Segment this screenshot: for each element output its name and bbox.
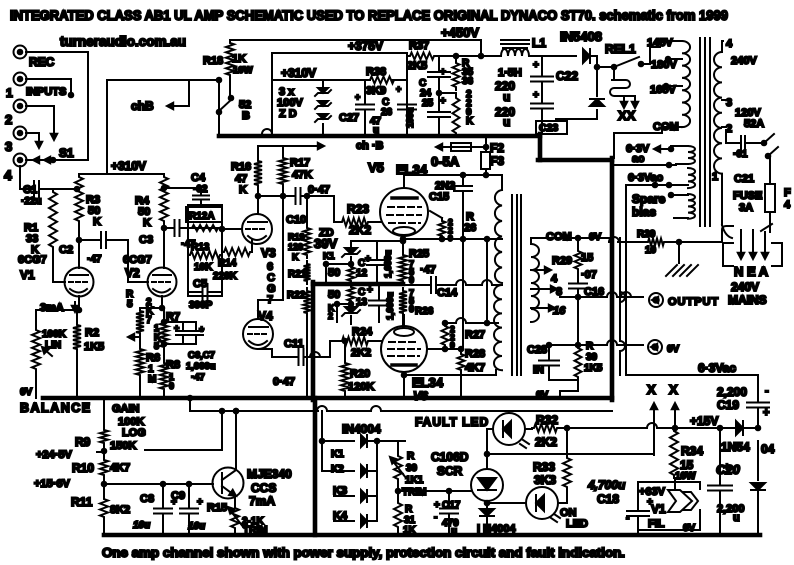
- transformer bias winding: [669, 193, 695, 219]
- capacitor C9: [171, 484, 205, 535]
- wire SCR anode: [485, 429, 490, 469]
- svg-text:+450V: +450V: [441, 25, 479, 40]
- svg-text:CCS: CCS: [251, 481, 276, 495]
- potentiometer GAIN: [100, 398, 146, 446]
- svg-text:K: K: [93, 216, 101, 228]
- svg-text:·07: ·07: [581, 269, 597, 281]
- svg-text:REC: REC: [29, 55, 55, 69]
- label 3mA: [40, 302, 78, 314]
- svg-text:N E A: N E A: [734, 264, 769, 279]
- svg-text:1·5H: 1·5H: [498, 67, 522, 79]
- svg-text:M: M: [148, 374, 156, 385]
- wire OPT tap 8: [531, 286, 562, 298]
- svg-text:K: K: [292, 252, 299, 262]
- label +15.6V: [34, 478, 106, 490]
- svg-text:K2: K2: [331, 464, 344, 475]
- svg-text:GAIN: GAIN: [112, 403, 140, 415]
- svg-text:R12A: R12A: [189, 211, 215, 222]
- svg-text:0: 0: [409, 275, 414, 285]
- svg-text:180V: 180V: [651, 59, 677, 71]
- svg-text:2K5: 2K5: [407, 60, 427, 72]
- label INPUTS: [26, 86, 66, 98]
- wire 0V R39 row: [609, 226, 733, 242]
- label COM: [653, 121, 679, 133]
- node K2: [328, 302, 339, 321]
- diode snubber: [556, 65, 604, 119]
- resistor R30 trim: [390, 441, 426, 498]
- jack 0V: [648, 340, 662, 354]
- wire +310V rail input stage: [79, 159, 164, 174]
- svg-text:B: B: [242, 110, 250, 122]
- svg-text:MJE340: MJE340: [247, 467, 292, 481]
- svg-text:R23: R23: [347, 202, 369, 216]
- junction 0V bus: [188, 396, 193, 401]
- svg-text:2K2: 2K2: [535, 435, 557, 449]
- svg-text:10K: 10K: [194, 262, 213, 273]
- tap 1: [712, 171, 722, 183]
- website text: [60, 34, 186, 49]
- svg-text:K4: K4: [333, 510, 348, 522]
- potentiometer 100K LIN: [32, 327, 67, 372]
- transformer 6.3V winding 2: [626, 168, 695, 188]
- wire 6.3Vac bottom row: [626, 361, 758, 375]
- capacitor C12: [356, 241, 393, 284]
- wire R16 to V3 plate: [256, 188, 283, 214]
- svg-text:1K: 1K: [232, 53, 246, 65]
- svg-text:X: X: [647, 382, 656, 397]
- svg-text:IN4004: IN4004: [342, 422, 381, 436]
- label R 26: [464, 211, 476, 234]
- title text: [10, 8, 728, 23]
- wire thick right edge output box: [610, 158, 615, 400]
- svg-text:1K5: 1K5: [84, 341, 104, 353]
- wire sub0V line: [190, 398, 612, 413]
- svg-text:04: 04: [761, 442, 775, 456]
- wire thick cathode rail y284: [313, 282, 403, 287]
- label spare bias: [632, 192, 666, 219]
- resistor R11: [71, 478, 130, 535]
- switch 52A arm2: [761, 224, 772, 232]
- svg-text:-: -: [434, 512, 437, 523]
- svg-text:·47: ·47: [420, 264, 436, 276]
- resistor R7: [154, 311, 180, 351]
- svg-text:MAINS: MAINS: [728, 293, 767, 307]
- svg-text:C14: C14: [437, 287, 458, 299]
- resistor R8: [160, 359, 180, 398]
- resistor R1: [24, 189, 57, 256]
- svg-text:K: K: [143, 217, 151, 229]
- svg-text:R34: R34: [681, 444, 703, 458]
- resistor R16: [231, 146, 262, 196]
- svg-text:3K3: 3K3: [534, 473, 556, 487]
- label 0V bottom right: [683, 523, 696, 534]
- svg-text:2K2: 2K2: [349, 223, 371, 237]
- arrow X1: [651, 403, 657, 455]
- svg-text:5: 5: [127, 299, 133, 310]
- zener diode ZD 39V: [314, 227, 360, 264]
- resistor 50 lower: [328, 284, 355, 304]
- node K1: [323, 251, 335, 266]
- svg-text:4: 4: [726, 38, 733, 50]
- svg-text:R38: R38: [366, 66, 386, 78]
- svg-text:C3: C3: [139, 234, 153, 246]
- svg-text:TRIM: TRIM: [243, 525, 267, 536]
- resistor R37: [407, 40, 436, 72]
- wire chB down to +310: [106, 80, 108, 174]
- svg-text:3: 3: [726, 97, 732, 109]
- wire C28 R39 node: [547, 343, 581, 348]
- resistor R3: [75, 174, 101, 228]
- capacitor C4: [162, 172, 209, 207]
- svg-text:0: 0: [409, 304, 414, 314]
- svg-text:EL34: EL34: [412, 375, 444, 390]
- svg-text:C17: C17: [442, 500, 461, 511]
- label R27 wire: [428, 329, 485, 351]
- label 1: [6, 86, 13, 100]
- capacitor C16: [569, 269, 604, 345]
- wire C19 to +15 rail: [757, 415, 759, 428]
- label ON LED: [560, 507, 588, 530]
- diode K1: [322, 435, 405, 460]
- tap 2: [722, 118, 764, 135]
- svg-text:COM: COM: [653, 121, 679, 133]
- svg-text:V6: V6: [413, 389, 428, 403]
- transformer primary: [714, 41, 723, 174]
- wire jack4 down: [19, 166, 21, 189]
- resistor R25: [399, 237, 429, 285]
- svg-text:SCR: SCR: [437, 464, 463, 478]
- svg-text:S1: S1: [59, 146, 74, 160]
- resistor R18: [203, 40, 253, 78]
- svg-text:C10: C10: [286, 214, 306, 226]
- svg-text:1,000u: 1,000u: [186, 361, 216, 372]
- svg-text:V5: V5: [368, 160, 384, 175]
- svg-text:turneraudio.com.au: turneraudio.com.au: [60, 34, 186, 49]
- svg-text:IN: IN: [533, 364, 544, 376]
- svg-text:6·3Vac: 6·3Vac: [698, 361, 736, 375]
- svg-text:LED: LED: [566, 518, 588, 530]
- capacitor C20: [708, 428, 745, 535]
- svg-text:TRIM: TRIM: [402, 487, 426, 498]
- jack input 2: [14, 100, 27, 113]
- label 6CG7 V1: [18, 254, 47, 282]
- capacitor C6: [162, 320, 196, 347]
- svg-text:4: 4: [551, 273, 558, 285]
- svg-text:BALANCE: BALANCE: [20, 401, 92, 415]
- svg-text:chB: chB: [131, 99, 154, 113]
- arrow X2: [672, 403, 678, 428]
- tube V5: [380, 188, 428, 236]
- svg-text:2,200: 2,200: [717, 503, 745, 515]
- wire 450 to L1: [481, 55, 501, 57]
- wire C10 to R23: [334, 196, 340, 222]
- capacitor C13: [356, 284, 395, 322]
- wire C2 to V2 grid: [128, 240, 148, 282]
- svg-text:0V: 0V: [683, 523, 696, 534]
- svg-text:100K: 100K: [42, 329, 67, 340]
- svg-text:+310V: +310V: [111, 159, 146, 173]
- svg-text:F3: F3: [490, 154, 504, 168]
- svg-text:R26: R26: [415, 306, 434, 317]
- svg-text:·47: ·47: [191, 372, 205, 383]
- label 0V jack: [667, 344, 680, 355]
- jack OUTPUT: [649, 293, 663, 307]
- svg-text:+: +: [440, 96, 446, 107]
- wire zener top rail: [351, 239, 405, 244]
- svg-text:0V: 0V: [667, 344, 680, 355]
- wire jack1 stub: [26, 79, 73, 97]
- transformer OPT primary upper: [495, 190, 502, 283]
- svg-text:0·47: 0·47: [273, 376, 295, 388]
- box +375V: [262, 39, 407, 134]
- svg-text:120K: 120K: [348, 381, 374, 393]
- wire base line: [104, 482, 213, 487]
- svg-text:C21: C21: [734, 173, 754, 185]
- wire REC jack to S1 bus: [26, 52, 88, 160]
- svg-text:240V: 240V: [731, 280, 759, 294]
- resistor R36: [453, 89, 475, 136]
- svg-text:K1: K1: [331, 449, 344, 460]
- bracket mains right: [772, 243, 782, 266]
- resistor R31: [394, 491, 417, 536]
- svg-text:240V: 240V: [731, 55, 757, 67]
- label V3 6CG7 V4: [258, 246, 276, 323]
- tube V4: [243, 319, 273, 349]
- svg-text:Spare: Spare: [632, 192, 666, 206]
- svg-text:145V: 145V: [647, 37, 673, 49]
- svg-text:+15V: +15V: [690, 414, 718, 428]
- svg-text:1K5: 1K5: [584, 363, 603, 374]
- svg-text:4,700u: 4,700u: [587, 478, 626, 492]
- resistor R21: [288, 261, 311, 284]
- capacitor C22: [495, 60, 578, 104]
- svg-text:FAULT LED: FAULT LED: [415, 415, 489, 429]
- wire OPT tap 4: [531, 267, 558, 285]
- wire mains E arrow: [750, 230, 756, 259]
- svg-text:R20: R20: [350, 368, 370, 380]
- svg-text:390P: 390P: [189, 300, 213, 311]
- svg-text:0V: 0V: [20, 387, 33, 398]
- svg-text:R2: R2: [85, 327, 99, 339]
- svg-text:R: R: [407, 451, 415, 462]
- wire +450V rail: [230, 25, 481, 40]
- svg-text:10: 10: [645, 245, 657, 256]
- label 0V left: [20, 387, 33, 398]
- svg-text:+: +: [647, 497, 653, 508]
- resistor R32: [532, 413, 559, 449]
- relay coil REL1: [610, 67, 634, 96]
- capacitor C27: [339, 80, 382, 136]
- led ON: [494, 487, 567, 522]
- wire K2 row: [337, 304, 351, 322]
- wire C24 C25 mid: [437, 91, 456, 96]
- wire R7 R8: [163, 350, 165, 360]
- wire thick bottom 0V bus y535: [104, 533, 760, 538]
- wire R30 to gate node: [396, 482, 472, 493]
- svg-text:R8: R8: [166, 359, 180, 371]
- svg-text:15: 15: [680, 458, 694, 472]
- resistor R13: [188, 242, 222, 273]
- wire heater line: [614, 163, 676, 168]
- svg-text:-: -: [626, 513, 629, 524]
- wire ch.B arrow: [258, 140, 384, 152]
- resistor R14: [213, 240, 252, 282]
- wire screen tap column: [485, 237, 490, 323]
- resistor R23: [340, 202, 381, 237]
- svg-text:4: 4: [4, 167, 12, 183]
- box +63V V1 FIL: [638, 482, 700, 530]
- svg-text:+: +: [724, 462, 730, 473]
- svg-text:50: 50: [328, 289, 340, 301]
- wire L1 to C22: [529, 56, 542, 68]
- wire thick 0V rail y160: [538, 158, 612, 163]
- svg-text:50: 50: [328, 267, 340, 279]
- wire V5 plate to OPT top: [404, 173, 502, 190]
- svg-text:R29: R29: [552, 255, 572, 267]
- svg-text:C28: C28: [527, 344, 547, 356]
- resistor R12A: [186, 207, 222, 231]
- svg-text:K3: K3: [333, 485, 347, 497]
- wire C14 row: [403, 280, 502, 285]
- resistor 220 screen V5: [430, 211, 453, 243]
- resistor R26 750: [399, 288, 434, 327]
- transistor MJE340 CCS: [213, 467, 244, 505]
- diode K3: [333, 485, 377, 502]
- label 2: [5, 112, 12, 127]
- capacitor C25: [422, 93, 450, 136]
- svg-text:+375V: +375V: [348, 39, 383, 53]
- wire R34 to V1 FIL: [674, 478, 676, 489]
- wire jack3 stub: [26, 133, 42, 148]
- svg-text:25: 25: [422, 98, 434, 109]
- svg-text:u: u: [503, 115, 510, 129]
- svg-text:3: 3: [5, 139, 12, 154]
- svg-text:165V: 165V: [650, 84, 676, 96]
- capacitor C3: [139, 220, 196, 250]
- svg-text:REL1: REL1: [605, 42, 636, 56]
- label 6.3Vac: [628, 172, 671, 187]
- tap 3: [722, 97, 761, 119]
- wire V6 screen row: [404, 315, 498, 326]
- svg-text:R14: R14: [218, 258, 237, 269]
- wire K bus: [376, 441, 378, 521]
- wire R39 to 0V: [536, 380, 578, 401]
- label FAULT LED: [415, 415, 489, 429]
- svg-text:0-5A: 0-5A: [431, 154, 460, 169]
- wire chB line: [107, 78, 221, 111]
- svg-text:OUTPUT: OUTPUT: [668, 296, 719, 308]
- jack input 1: [14, 73, 27, 86]
- wire mains live: [722, 181, 732, 238]
- svg-text:C27: C27: [339, 112, 359, 124]
- svg-text:u: u: [373, 125, 379, 136]
- svg-text:C18: C18: [597, 492, 619, 506]
- svg-text:4K7: 4K7: [465, 362, 485, 374]
- svg-text:+: +: [533, 60, 539, 71]
- wire thick left edge output box: [311, 282, 316, 400]
- svg-text:12: 12: [356, 268, 368, 279]
- svg-text:39V: 39V: [314, 236, 337, 251]
- wire 0V out row: [578, 340, 643, 345]
- svg-text:+: +: [174, 323, 179, 333]
- wire OPT tap 16: [531, 305, 566, 317]
- svg-text:ch ·B: ch ·B: [356, 140, 384, 152]
- wire R12A block frame: [188, 205, 222, 296]
- svg-text:1K: 1K: [403, 525, 417, 536]
- wire C1 to R3 node: [53, 187, 79, 192]
- capacitor C17: [434, 491, 461, 537]
- svg-text:R: R: [586, 341, 594, 352]
- wire mains N arrow: [738, 230, 744, 259]
- svg-text:26: 26: [381, 107, 393, 118]
- wire R5 R6: [139, 336, 141, 346]
- resistor 50 upper: [328, 262, 355, 284]
- svg-text:F2: F2: [490, 141, 504, 155]
- wire SCR cathode node: [485, 501, 494, 506]
- wire R37 line: [407, 40, 483, 58]
- capacitor C26: [381, 80, 416, 134]
- wire collector up: [234, 409, 239, 467]
- svg-text:R13: R13: [191, 242, 210, 253]
- svg-text:+: +: [533, 90, 539, 101]
- svg-text:6CG7: 6CG7: [123, 254, 152, 266]
- transformer OPT secondary: [531, 244, 539, 322]
- wire thick 0V step at x540: [538, 134, 543, 160]
- svg-text:1: 1: [6, 86, 13, 100]
- diode 1N5404: [721, 421, 775, 456]
- svg-text:R37: R37: [409, 40, 429, 52]
- svg-text:V1: V1: [20, 268, 35, 282]
- resistor R29: [552, 236, 593, 272]
- label EL34 V6: [412, 375, 444, 403]
- resistor R39 1K5: [575, 341, 603, 380]
- tube V6: [381, 326, 427, 372]
- svg-text:IN5408: IN5408: [560, 29, 602, 44]
- resistor R5: [126, 289, 154, 336]
- svg-text:·47: ·47: [87, 254, 102, 265]
- wire V2 cathode: [140, 296, 164, 318]
- svg-text:3K9: 3K9: [366, 85, 386, 97]
- jack input 4: [14, 154, 27, 167]
- svg-text:+: +: [440, 67, 446, 78]
- label C6 C7 values: [186, 350, 216, 383]
- svg-text:6·3Vac: 6·3Vac: [628, 172, 663, 184]
- svg-text:7mA: 7mA: [249, 494, 275, 508]
- transformer core: [700, 38, 710, 226]
- svg-text:R33: R33: [533, 460, 555, 474]
- svg-text:R32: R32: [536, 413, 558, 427]
- svg-text:+15·6V: +15·6V: [34, 478, 70, 490]
- wire R17 down: [281, 187, 286, 300]
- svg-text:u: u: [503, 90, 510, 104]
- svg-text:5: 5: [154, 341, 159, 351]
- led FAULT: [487, 413, 532, 448]
- resistor R4: [135, 174, 168, 229]
- svg-text:15: 15: [581, 252, 593, 264]
- label 3: [5, 139, 12, 154]
- fuse F3: [431, 138, 504, 175]
- switch S1 arm: [26, 157, 88, 163]
- svg-text:+: +: [763, 407, 769, 419]
- balance wiper arrow: [128, 334, 140, 340]
- transformer HT winding: [660, 41, 690, 127]
- svg-text:K1: K1: [323, 251, 335, 261]
- svg-text:C11: C11: [284, 338, 304, 350]
- svg-text:10u: 10u: [133, 520, 150, 531]
- svg-text:0·47: 0·47: [308, 184, 330, 196]
- svg-text:6CG7: 6CG7: [18, 254, 47, 266]
- tube V1: [65, 268, 94, 297]
